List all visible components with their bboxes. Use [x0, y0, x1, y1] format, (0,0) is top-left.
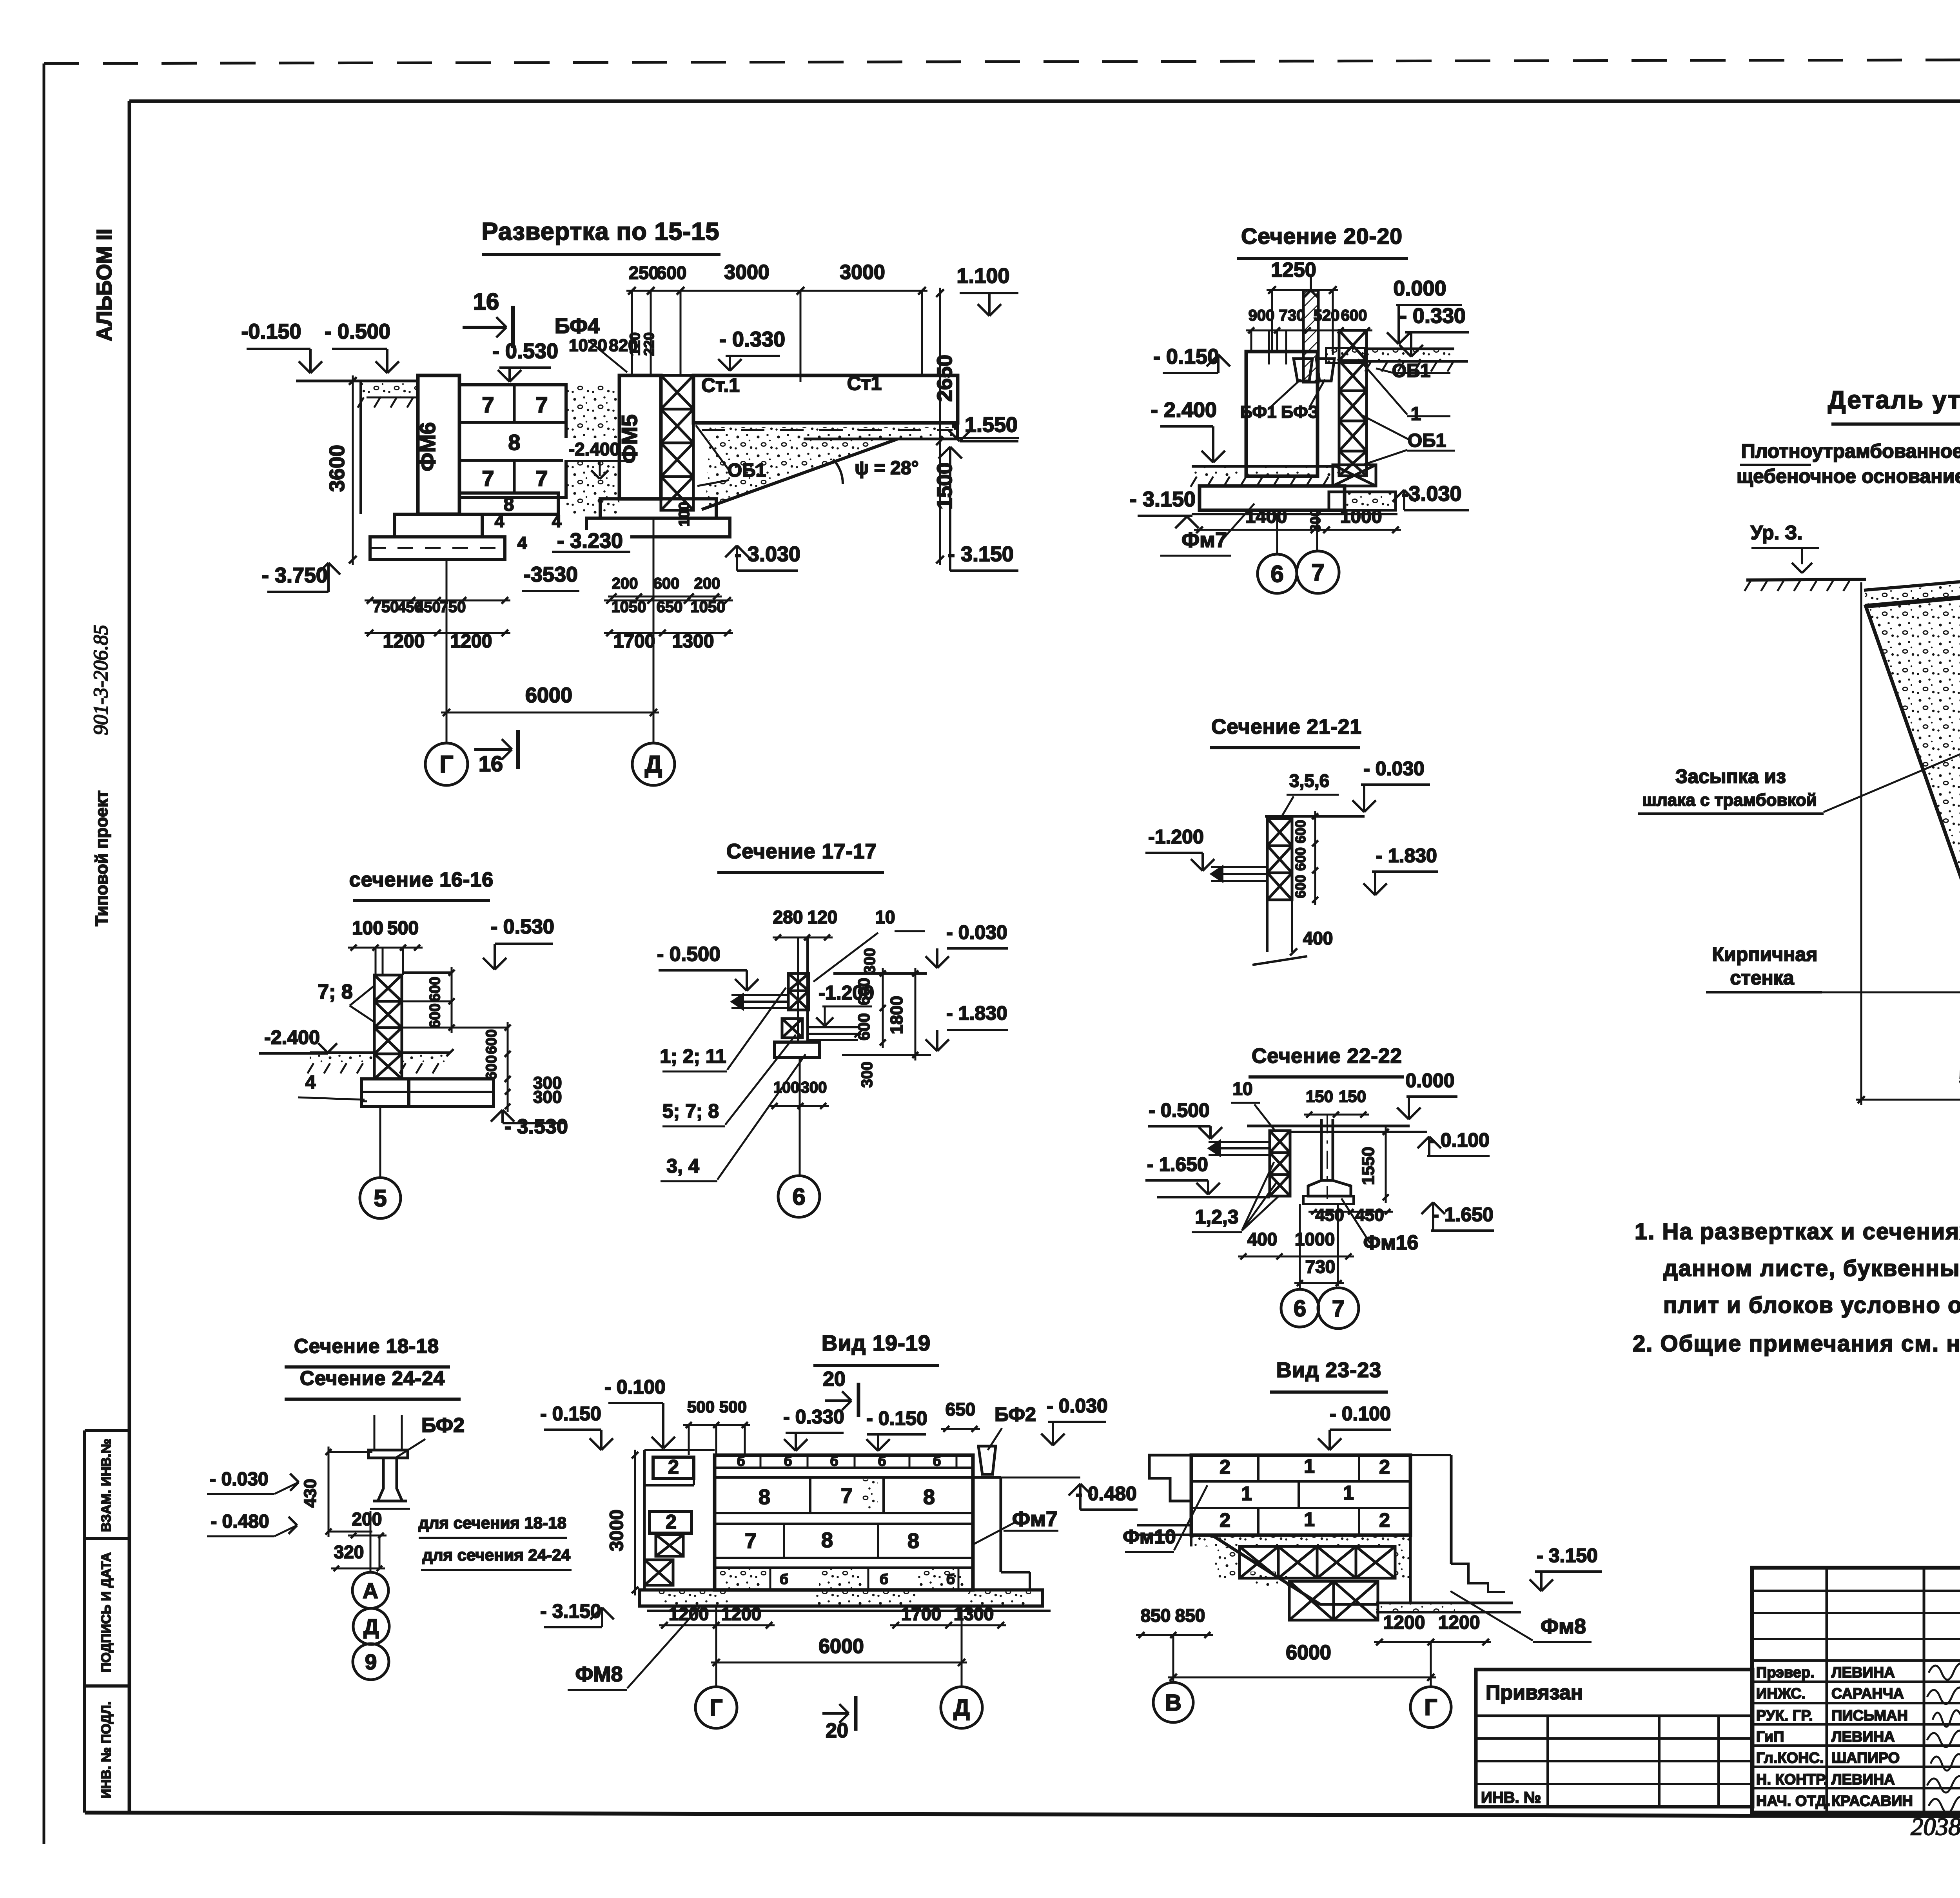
svg-text:430: 430	[301, 1479, 320, 1507]
svg-text:ИНВ. № ПОДЛ.: ИНВ. № ПОДЛ.	[99, 1701, 114, 1798]
dimension 600 600 right upper s16	[402, 967, 455, 1033]
svg-text:20388 -02: 20388 -02	[1911, 1813, 1960, 1840]
dimension 320 1818	[331, 1535, 385, 1571]
svg-text:2: 2	[1220, 1456, 1230, 1478]
dimension 730 s22	[1294, 1256, 1344, 1286]
svg-text:БФЗ: БФЗ	[1281, 402, 1319, 422]
dimension 120 220 rotated	[627, 332, 657, 356]
svg-text:-3530: -3530	[524, 563, 578, 586]
svg-text:АЛЬБОМ II: АЛЬБОМ II	[93, 228, 116, 341]
svg-text:- 0.330: - 0.330	[783, 1406, 844, 1428]
bottom level line s17	[842, 1054, 931, 1056]
title block name rows	[1752, 1682, 1960, 1788]
title Сечение 24-24	[285, 1367, 461, 1399]
label ФМ7 with leader	[1160, 504, 1254, 556]
right floor slab s17	[809, 1027, 862, 1040]
top level line s21	[1265, 815, 1365, 818]
svg-text:1250: 1250	[1271, 259, 1316, 281]
dimension 600 600 right lower s16	[402, 1022, 511, 1084]
label БФ2 1818	[397, 1414, 465, 1457]
svg-text:Д: Д	[953, 1695, 969, 1720]
svg-text:300: 300	[533, 1088, 562, 1107]
svg-text:-0.150: -0.150	[241, 320, 301, 343]
cross blocks s17	[782, 973, 809, 1038]
section cut mark 16 top	[463, 288, 513, 348]
label ОБ1 lower	[1362, 415, 1455, 464]
axis line Д	[632, 518, 675, 785]
labels 4 on slabs	[495, 512, 562, 553]
Привязан grid	[1476, 1716, 1753, 1807]
axis circle Г v23	[1410, 1642, 1451, 1728]
svg-text:- 3.530: - 3.530	[505, 1115, 568, 1138]
svg-text:600: 600	[1292, 847, 1308, 871]
svg-text:7: 7	[535, 466, 548, 491]
svg-text:7: 7	[482, 466, 494, 491]
label Плотноутрамбованное щебеночное основание	[1737, 440, 1960, 558]
svg-text:1200: 1200	[1383, 1612, 1425, 1633]
svg-text:б: б	[878, 1454, 886, 1469]
svg-text:ПИСЬМАН: ПИСЬМАН	[1831, 1708, 1908, 1724]
svg-text:Д: Д	[645, 751, 662, 778]
lower ground line s22	[1157, 1196, 1270, 1198]
angle label 28 deg	[833, 458, 919, 484]
svg-text:0.000: 0.000	[1405, 1070, 1454, 1091]
title block names	[1831, 1664, 1913, 1809]
svg-text:- 1.650: - 1.650	[1432, 1204, 1494, 1225]
concrete strip with level -2.400	[563, 385, 627, 514]
footing s17	[775, 1042, 820, 1057]
wall column ФМ5	[617, 375, 661, 499]
svg-text:б: б	[780, 1571, 788, 1587]
svg-text:500: 500	[719, 1398, 747, 1416]
svg-text:1500: 1500	[933, 462, 956, 509]
svg-text:150: 150	[1306, 1087, 1333, 1106]
svg-text:1300: 1300	[672, 631, 714, 652]
svg-text:10: 10	[1232, 1079, 1252, 1099]
svg-text:8: 8	[759, 1485, 770, 1509]
svg-text:7: 7	[745, 1529, 757, 1553]
dimension 600x3 s21	[1292, 811, 1318, 905]
right wall edge v19	[973, 1477, 1030, 1590]
dimension 300 bottom s17	[858, 1062, 876, 1088]
svg-text:600: 600	[855, 1013, 873, 1041]
dimension 1250	[1267, 259, 1338, 355]
svg-text:-2.400: -2.400	[264, 1026, 320, 1048]
svg-text:6: 6	[792, 1184, 805, 1210]
hatched rail column	[1303, 274, 1319, 382]
left stamp column	[85, 1430, 129, 1813]
brick joints row2 v19	[745, 1524, 919, 1558]
footing slab s20	[1192, 465, 1397, 514]
svg-text:б: б	[946, 1571, 955, 1587]
svg-text:- 0.500: - 0.500	[325, 320, 390, 343]
label 10 s22	[1231, 1079, 1276, 1132]
svg-text:ИНВ. №: ИНВ. №	[1481, 1789, 1541, 1806]
svg-text:730: 730	[1305, 1256, 1336, 1277]
svg-text:250: 250	[629, 263, 659, 283]
funnel БФ2 v19	[978, 1446, 996, 1474]
svg-text:200: 200	[694, 575, 720, 592]
top dimension row 250 600 3000 3000	[626, 261, 927, 382]
svg-text:16: 16	[479, 751, 503, 776]
svg-text:б: б	[880, 1571, 888, 1587]
title Сечение 16-16	[349, 868, 494, 901]
footing under ФМ6	[370, 514, 505, 560]
svg-text:5: 5	[374, 1185, 387, 1211]
svg-text:-2.400: -2.400	[569, 439, 620, 459]
dimension 1200 1200 v19	[659, 1604, 775, 1628]
svg-text:100: 100	[773, 1079, 800, 1096]
svg-text:ФМ5: ФМ5	[617, 414, 642, 464]
axis circle 5 s16	[360, 1106, 401, 1218]
svg-text:- 0.330: - 0.330	[719, 328, 785, 351]
svg-text:6: 6	[1294, 1296, 1306, 1321]
svg-text:600: 600	[483, 1055, 500, 1080]
top floor lines s22	[1247, 1126, 1427, 1132]
svg-text:б: б	[737, 1454, 745, 1469]
svg-text:Ур. З.: Ур. З.	[1751, 522, 1803, 544]
svg-text:4: 4	[495, 512, 505, 531]
title Сечение 18-18	[285, 1335, 450, 1367]
svg-text:- 0.530: - 0.530	[492, 339, 558, 363]
brick labels row1 v23	[1220, 1455, 1390, 1481]
dimension 300 300 s16	[505, 1073, 562, 1112]
svg-text:450: 450	[1355, 1206, 1384, 1225]
section cut mark 16 bottom	[474, 730, 518, 776]
dimension 150 150 s22	[1304, 1087, 1369, 1118]
svg-text:БФ4: БФ4	[555, 314, 599, 338]
top small blocks row v19	[737, 1454, 956, 1469]
svg-text:1,2,3: 1,2,3	[1195, 1206, 1238, 1228]
label ОБ1 with leaders	[696, 425, 766, 486]
svg-text:ЛЕВИНА: ЛЕВИНА	[1831, 1771, 1895, 1788]
left beam s21	[1211, 866, 1267, 882]
svg-text:7: 7	[482, 392, 494, 417]
svg-text:20: 20	[823, 1368, 846, 1390]
svg-text:шлака с трамбовкой: шлака с трамбовкой	[1642, 790, 1817, 810]
svg-text:- 2.400: - 2.400	[1151, 398, 1217, 422]
sloped gravel bed top	[1864, 566, 1960, 606]
svg-text:1300: 1300	[954, 1604, 994, 1624]
svg-text:7; 8: 7; 8	[318, 981, 353, 1003]
axis circle А 1818	[352, 1511, 388, 1608]
dimension 200 1818	[348, 1509, 387, 1538]
svg-text:стенка: стенка	[1730, 967, 1794, 989]
dimension 100 300 s17	[769, 1079, 829, 1109]
svg-text:7: 7	[841, 1484, 853, 1508]
axis circle 9 1818	[353, 1644, 389, 1680]
axis circle 7 s22	[1318, 1204, 1359, 1329]
rail block БФ2 1818	[368, 1415, 410, 1509]
left stepped wall v23	[1135, 1455, 1191, 1535]
label ОБ1 upper	[1376, 361, 1450, 381]
svg-text:Н. КОНТР.: Н. КОНТР.	[1756, 1771, 1828, 1788]
dimension row 1050 650 1050	[604, 597, 733, 616]
svg-text:100: 100	[676, 502, 693, 526]
axis circle 6 s22	[1281, 1204, 1319, 1327]
title Развертка по 15-15	[482, 218, 721, 255]
column bottom s21	[1252, 900, 1307, 965]
svg-text:9: 9	[365, 1650, 377, 1674]
svg-text:1200: 1200	[721, 1604, 761, 1624]
svg-text:щебеночное основание: щебеночное основание	[1737, 465, 1960, 487]
dimension 6000 v23	[1168, 1641, 1436, 1681]
dimension 6000	[441, 683, 659, 716]
svg-text:7: 7	[535, 392, 548, 417]
svg-text:Д: Д	[363, 1614, 379, 1639]
vertical dimension 3600	[325, 375, 357, 565]
label для сечения 18-18	[418, 1514, 567, 1538]
svg-text:Вид 23-23: Вид 23-23	[1276, 1358, 1382, 1382]
svg-text:8: 8	[907, 1529, 919, 1553]
svg-text:3000: 3000	[724, 261, 769, 284]
label Засыпка из шлака с трамбовкой	[1638, 730, 1960, 814]
signatures column	[1927, 1663, 1960, 1813]
svg-text:для сечения 24-24: для сечения 24-24	[422, 1546, 570, 1564]
svg-text:НАЧ. ОТД.: НАЧ. ОТД.	[1756, 1793, 1830, 1809]
svg-text:Сечение 18-18: Сечение 18-18	[294, 1335, 439, 1357]
svg-text:б: б	[784, 1454, 792, 1469]
svg-text:6000: 6000	[818, 1635, 864, 1658]
label 3,4 s17	[661, 1054, 806, 1181]
svg-text:300: 300	[801, 1079, 827, 1096]
svg-text:А: А	[363, 1578, 378, 1603]
svg-text:Типовой проект: Типовой проект	[92, 790, 111, 926]
svg-text:600: 600	[855, 978, 873, 1005]
sheet outer border top dashed line	[44, 59, 1960, 63]
ground level right	[1365, 349, 1468, 372]
stipple band under block v23	[1191, 1535, 1410, 1546]
svg-text:Засыпка из: Засыпка из	[1675, 765, 1786, 787]
beam Ст1	[693, 372, 958, 438]
dimension 450 450 s22	[1308, 1206, 1393, 1225]
svg-text:Сечение 20-20: Сечение 20-20	[1241, 224, 1403, 249]
svg-text:1550: 1550	[1359, 1147, 1378, 1185]
title Сечение 21-21	[1210, 715, 1362, 748]
svg-text:Фм7: Фм7	[1012, 1507, 1058, 1531]
dimension row 1700 1300	[604, 630, 733, 652]
svg-text:600: 600	[653, 575, 680, 592]
left beam s22	[1209, 1140, 1270, 1156]
svg-text:600: 600	[427, 1003, 443, 1028]
svg-text:10: 10	[875, 907, 895, 927]
svg-text:ОБ1: ОБ1	[1392, 361, 1431, 381]
svg-text:400: 400	[1247, 1229, 1278, 1249]
sheet outer border left line	[43, 63, 45, 1844]
svg-text:6000: 6000	[525, 683, 572, 707]
level mark -0.480 1818	[207, 1511, 297, 1536]
svg-text:500: 500	[687, 1398, 715, 1416]
svg-text:1700: 1700	[613, 631, 655, 652]
svg-text:Фм7: Фм7	[1181, 528, 1227, 552]
foundation block outline	[1246, 330, 1318, 476]
dimension 6000 v19	[711, 1635, 967, 1666]
dimension 400 s21	[1290, 928, 1333, 955]
svg-text:5; 7; 8: 5; 7; 8	[662, 1100, 719, 1122]
svg-text:1: 1	[1304, 1455, 1315, 1477]
slag backfill body	[1866, 583, 1960, 922]
axis circle Д v19	[941, 1606, 982, 1728]
axis circle В v23	[1153, 1635, 1193, 1722]
svg-text:600: 600	[1292, 875, 1308, 898]
svg-text:ОБ1: ОБ1	[728, 460, 766, 481]
svg-text:КРАСАВИН: КРАСАВИН	[1831, 1793, 1913, 1809]
svg-text:- 1.830: - 1.830	[946, 1002, 1007, 1024]
svg-text:- 3.150: - 3.150	[948, 542, 1014, 566]
footing strip v19	[640, 1590, 1051, 1611]
svg-text:600: 600	[1341, 307, 1367, 324]
label 7;8 with leaders	[318, 981, 374, 1022]
title Вид 23-23	[1270, 1358, 1388, 1392]
ground line detail	[1744, 579, 1866, 591]
svg-text:2: 2	[1379, 1509, 1390, 1531]
cross row 1 v23	[1215, 1546, 1410, 1578]
bottom dimension 500 130	[1856, 582, 1960, 1105]
title Сечение 20-20	[1237, 224, 1408, 259]
column cross blocks s16	[374, 948, 403, 1079]
svg-text:2: 2	[1379, 1456, 1390, 1478]
dimension row 900 730 520 600	[1246, 307, 1372, 352]
svg-text:- 0.150: - 0.150	[540, 1403, 601, 1425]
level mark -0.030 1818	[207, 1469, 299, 1494]
footing under ФМ5	[586, 499, 730, 537]
svg-text:ψ = 28°: ψ = 28°	[855, 458, 918, 479]
label 10 s17	[813, 907, 925, 982]
svg-text:- 1.830: - 1.830	[1376, 845, 1437, 867]
ground strip s16	[307, 1049, 454, 1073]
brick labels row2 v23	[1241, 1481, 1354, 1508]
svg-text:320: 320	[334, 1542, 364, 1562]
dimension 1800 s17	[887, 968, 918, 1060]
svg-text:плит и блоков условно: плит и блоков условно опущен.	[1663, 1293, 1960, 1318]
dimension 300 rotated s17	[861, 948, 878, 974]
title block outer	[1752, 1568, 1960, 1813]
ground level inner -2.400	[1191, 466, 1339, 487]
svg-text:- 0.030: - 0.030	[1047, 1395, 1108, 1417]
svg-text:Развертка по 15-15: Развертка по 15-15	[482, 218, 720, 245]
top level line s16	[402, 972, 452, 974]
svg-text:400: 400	[1303, 928, 1333, 948]
label 5;7;8 s17	[662, 1035, 796, 1126]
svg-text:В: В	[1165, 1690, 1181, 1715]
svg-text:- 3.750: - 3.750	[262, 564, 328, 587]
svg-text:600: 600	[1292, 820, 1308, 843]
svg-text:-1.200: -1.200	[1148, 826, 1204, 848]
svg-text:1200: 1200	[383, 631, 425, 652]
svg-text:4: 4	[552, 512, 562, 531]
svg-text:7: 7	[1332, 1296, 1345, 1321]
svg-text:0.000: 0.000	[1393, 277, 1446, 300]
svg-text:2: 2	[666, 1511, 677, 1533]
axis circle 7 s20	[1297, 510, 1339, 593]
svg-text:ОБ1: ОБ1	[1408, 430, 1446, 451]
svg-text:6: 6	[1270, 561, 1283, 587]
svg-text:б: б	[933, 1454, 941, 1469]
title Сечение 17-17	[717, 840, 884, 872]
svg-text:САРАНЧА: САРАНЧА	[1831, 1686, 1904, 1702]
svg-text:8: 8	[508, 430, 520, 455]
svg-text:- 0.030: - 0.030	[210, 1469, 268, 1490]
svg-text:ЛЕВИНА: ЛЕВИНА	[1831, 1664, 1895, 1681]
label БФ2 v19	[988, 1403, 1036, 1450]
svg-text:Плотноутрамбованное: Плотноутрамбованное	[1741, 440, 1960, 462]
dimension row 750 450 450 750	[365, 597, 510, 616]
svg-text:600: 600	[427, 977, 443, 1001]
svg-text:сечение 16-16: сечение 16-16	[349, 868, 494, 891]
label Ур.З.	[1751, 522, 1819, 573]
svg-text:Ст.1: Ст.1	[701, 374, 740, 396]
level mark -1.200 s17	[816, 982, 874, 1026]
label 3,5,6 s21	[1281, 770, 1339, 818]
level box -3.230	[552, 529, 630, 553]
svg-text:- 0.100: - 0.100	[1330, 1403, 1391, 1425]
svg-text:900: 900	[1249, 307, 1275, 324]
label БФ4 with leader	[555, 314, 627, 372]
svg-text:3000: 3000	[606, 1510, 627, 1552]
svg-text:РУК. ГР.: РУК. ГР.	[1756, 1708, 1813, 1724]
svg-text:3, 4: 3, 4	[666, 1155, 699, 1177]
svg-text:120: 120	[808, 907, 838, 927]
svg-text:1: 1	[1304, 1508, 1315, 1530]
svg-text:Сечение 21-21: Сечение 21-21	[1211, 715, 1362, 738]
dimension 500 500 v19	[683, 1398, 750, 1455]
slope line v23	[1211, 1535, 1320, 1604]
svg-text:1020: 1020	[569, 336, 607, 355]
svg-text:1800: 1800	[887, 996, 906, 1034]
svg-text:730: 730	[1279, 307, 1305, 324]
svg-text:600: 600	[657, 263, 687, 283]
label ФМ8 v23	[1450, 1591, 1592, 1642]
bottom slab v23	[1376, 1603, 1521, 1612]
title Сечение 22-22	[1249, 1044, 1404, 1077]
svg-text:б: б	[830, 1454, 838, 1469]
label Кирпичная стенка	[1706, 943, 1960, 992]
svg-text:Г: Г	[439, 751, 453, 778]
cross row 2 v23	[1289, 1581, 1378, 1620]
svg-text:850: 850	[1175, 1605, 1205, 1626]
svg-text:Сечение 22-22: Сечение 22-22	[1252, 1044, 1402, 1068]
svg-text:Прэвер.: Прэвер.	[1756, 1664, 1815, 1681]
ground line left	[296, 381, 418, 514]
svg-text:- 3.150: - 3.150	[1537, 1545, 1598, 1566]
svg-text:1200: 1200	[450, 631, 492, 652]
svg-text:300: 300	[861, 948, 878, 974]
svg-text:3,5,6: 3,5,6	[1289, 770, 1329, 791]
svg-text:1: 1	[1343, 1482, 1354, 1504]
svg-text:650: 650	[946, 1399, 976, 1419]
axis circle Д 1818	[353, 1608, 389, 1644]
title block upper rows	[1752, 1591, 1960, 1661]
bottom strip v19	[719, 1568, 964, 1590]
svg-text:ФМ8: ФМ8	[575, 1662, 622, 1686]
svg-text:3000: 3000	[840, 261, 885, 284]
svg-text:Фм8: Фм8	[1541, 1615, 1586, 1638]
brick wall rows 7 8 left	[459, 385, 566, 515]
brick labels row3 v23	[1220, 1508, 1390, 1535]
axis circle 6 s20	[1258, 514, 1297, 593]
svg-text:- 0.330: - 0.330	[1400, 304, 1466, 328]
svg-text:Ст1: Ст1	[847, 372, 882, 394]
dimension 1020 820	[569, 336, 638, 355]
svg-text:3600: 3600	[325, 445, 349, 492]
left blocks v19	[644, 1450, 715, 1590]
svg-text:20: 20	[826, 1719, 848, 1742]
section cut mark 20 top	[823, 1368, 858, 1417]
svg-text:600: 600	[483, 1029, 500, 1054]
svg-text:- 0.030: - 0.030	[946, 921, 1007, 943]
svg-text:Гл.КОНС.: Гл.КОНС.	[1756, 1750, 1824, 1766]
svg-text:500: 500	[387, 918, 419, 939]
